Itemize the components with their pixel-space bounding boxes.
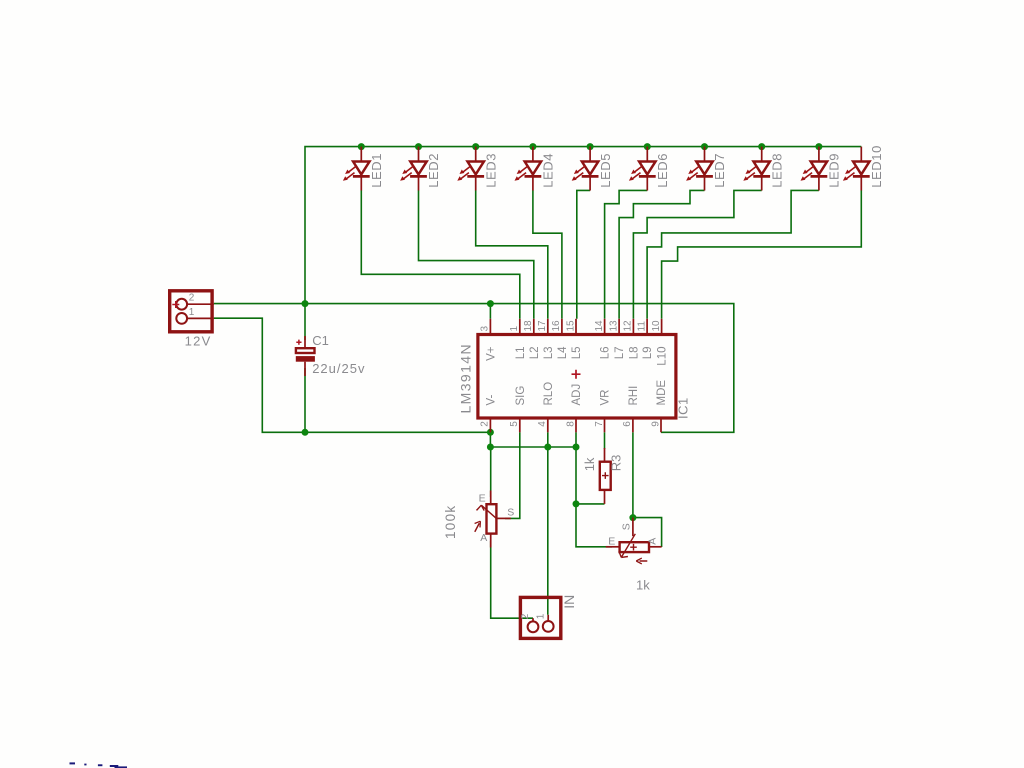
svg-text:6: 6 (622, 421, 633, 427)
svg-text:1: 1 (509, 326, 520, 332)
svg-text:LED5: LED5 (598, 153, 613, 188)
wire pot1 E link (490, 447, 492, 497)
svg-text:LED7: LED7 (712, 153, 727, 188)
svg-text:L3: L3 (543, 347, 555, 360)
svg-text:R3: R3 (608, 455, 623, 472)
wire V- pin2 down (489, 432, 491, 447)
wire LED6 cathode to pin L6 (605, 190, 648, 318)
svg-text:L6: L6 (600, 347, 612, 360)
LED LED9 (801, 147, 842, 191)
svg-text:17: 17 (537, 320, 548, 332)
junction RHI pot2 S node (629, 514, 636, 521)
pin name L7 (614, 347, 626, 360)
junction top rail LED1 (358, 143, 365, 150)
trimmer 100k pin label S (507, 507, 514, 519)
trimmer 1k pin label A (646, 538, 658, 545)
svg-text:15: 15 (565, 320, 576, 332)
junction V+ rail pin3 (487, 300, 494, 307)
svg-text:RLO: RLO (543, 382, 555, 406)
wire 12V pin1 to ground rail (214, 318, 491, 432)
wire R3 bottom link (576, 503, 605, 505)
svg-text:L1: L1 (515, 347, 527, 360)
wire LED2 cathode to pin L2 (419, 190, 534, 318)
trimmer 1k pin label E (608, 535, 615, 547)
pin name L3 (543, 347, 555, 360)
connector IN label (561, 595, 577, 609)
wire LED3 cathode to pin L3 (476, 190, 548, 318)
pin number 9 (650, 421, 661, 427)
LED LED10 (843, 145, 884, 190)
junction top rail LED9 (815, 143, 822, 150)
svg-text:8: 8 (565, 421, 576, 427)
svg-text:12: 12 (623, 320, 634, 332)
pin name L2 (529, 347, 541, 360)
svg-text:7: 7 (594, 421, 605, 427)
pin number 15 (565, 320, 576, 332)
svg-text:1: 1 (189, 307, 195, 318)
wire IC pin3 V+ stub net (489, 304, 491, 319)
svg-text:IN: IN (561, 595, 577, 609)
LED LED6 (629, 147, 670, 191)
junction top rail LED8 (758, 143, 765, 150)
IC U1 name LM3914N (458, 343, 474, 414)
pin number 13 (608, 320, 619, 332)
pin name L6 (600, 347, 612, 360)
svg-text:1: 1 (535, 613, 546, 619)
svg-text:16: 16 (551, 320, 562, 332)
pin name L1 (515, 347, 527, 360)
svg-text:L2: L2 (529, 347, 541, 360)
resistor R3 body (600, 462, 611, 490)
wire LED9 cathode to pin L9 (647, 190, 819, 318)
pin name RHI (628, 386, 640, 406)
svg-text:LED9: LED9 (827, 153, 842, 188)
wire LED7 cathode to pin L7 (619, 190, 704, 318)
svg-text:1k: 1k (582, 457, 597, 471)
svg-text:L5: L5 (571, 347, 583, 360)
junction ground pin2 (487, 429, 494, 436)
svg-text:LED4: LED4 (541, 153, 556, 188)
wire LED5 cathode to pin L5 (577, 190, 590, 318)
pin number 10 (651, 320, 662, 332)
svg-text:E: E (608, 535, 615, 547)
svg-text:22u/25v: 22u/25v (312, 361, 365, 376)
LED LED3 (457, 147, 498, 191)
svg-text:MDE: MDE (656, 380, 668, 406)
pin number 14 (594, 320, 605, 332)
junction top rail LED6 (644, 143, 651, 150)
junction top rail LED3 (472, 143, 479, 150)
junction rail447 ADJ (573, 444, 580, 451)
svg-text:L9: L9 (642, 347, 654, 360)
LED LED7 (686, 147, 727, 191)
pin number 17 (537, 320, 548, 332)
svg-text:E: E (479, 492, 486, 504)
svg-text:LED10: LED10 (869, 145, 884, 188)
svg-text:3: 3 (480, 326, 491, 332)
resistor R3 value 1k (582, 457, 597, 471)
capacitor C1 bottom plate (296, 356, 315, 362)
wire pot2 S-A loop (633, 518, 662, 547)
svg-text:L8: L8 (629, 347, 641, 360)
IC U1 refdes IC1 (676, 397, 691, 419)
junction rail447 left (487, 444, 494, 451)
svg-text:V+: V+ (486, 346, 498, 361)
connector IN pin number 1 (535, 613, 546, 619)
LED LED8 (743, 147, 784, 191)
svg-text:LED2: LED2 (426, 153, 441, 188)
pin name L4 (557, 346, 569, 359)
trimmer 1k pin label S (621, 523, 633, 530)
svg-text:14: 14 (594, 320, 605, 332)
trimmer 100k body (487, 504, 497, 533)
trimmer 1k body (620, 542, 649, 552)
wire SIG pin5 to pot1 wiper (505, 432, 520, 518)
junction top rail LED7 (701, 143, 708, 150)
pin number 18 (523, 320, 534, 332)
svg-text:2: 2 (189, 293, 195, 304)
pin name SIG (515, 386, 527, 406)
pin name V+ (486, 346, 498, 361)
pin number 5 (509, 421, 520, 427)
svg-text:LM3914N: LM3914N (458, 343, 474, 414)
wire LED10 cathode to pin L10 (662, 190, 862, 318)
resistor R3 refdes (608, 455, 623, 472)
svg-text:RHI: RHI (628, 386, 640, 406)
pin number 12 (623, 320, 634, 332)
pin name L8 (629, 347, 641, 360)
pin number 11 (636, 321, 647, 332)
LED LED1 (343, 147, 384, 191)
svg-text:2: 2 (480, 421, 491, 427)
wire pot1 A to IN pin2 (491, 541, 533, 618)
svg-text:5: 5 (509, 421, 520, 427)
pin name VR (600, 390, 612, 406)
svg-text:S: S (621, 523, 633, 530)
capacitor C1 refdes (312, 333, 329, 348)
svg-text:LED1: LED1 (369, 153, 384, 188)
pin name L10 (657, 347, 669, 366)
trimmer 100k pin A bottom (490, 534, 492, 548)
capacitor C1 value 22u/25v (312, 361, 365, 376)
svg-text:SIG: SIG (515, 386, 527, 406)
pin number 6 (622, 421, 633, 427)
connector 12V label (185, 333, 212, 348)
trimmer 100k pin E top (490, 491, 492, 505)
wire RLO pin4 to IN pin1 (547, 432, 549, 615)
trimmer 100k wiper arrow (477, 505, 497, 519)
svg-text:C1: C1 (312, 333, 329, 348)
svg-text:IC1: IC1 (676, 397, 691, 419)
junction top rail LED5 (587, 143, 594, 150)
wire C1 bottom link (304, 368, 306, 432)
resistor R3 pin bottom (604, 490, 606, 504)
trimmer 100k pin S wiper (496, 517, 510, 519)
stray blue marks bottom left (70, 762, 128, 768)
pin number 16 (551, 320, 562, 332)
trimmer 1k origin cross (630, 544, 637, 551)
IC U1 pin stubs top (490, 319, 661, 333)
svg-text:4: 4 (537, 421, 548, 427)
svg-text:10: 10 (651, 320, 662, 332)
svg-text:LED6: LED6 (655, 153, 670, 188)
capacitor C1 plus mark (296, 340, 301, 345)
svg-text:L10: L10 (657, 347, 669, 366)
pin name RLO (543, 382, 555, 406)
pin name ADJ (571, 384, 583, 406)
trimmer 1k pin A right (649, 546, 662, 548)
connector 12V plus mark (172, 301, 179, 308)
pin name L9 (642, 347, 654, 360)
pin number 8 (565, 421, 576, 427)
wire top anode rail (305, 147, 861, 304)
wire C1 top link (304, 304, 306, 340)
svg-text:A: A (480, 532, 487, 544)
pin number 7 (594, 421, 605, 427)
connector 12V pin number 2 (189, 293, 195, 304)
LED LED4 (515, 147, 556, 191)
trimmer 1k pin S wiper (632, 518, 634, 537)
junction V+ rail left (302, 300, 309, 307)
wire LED1 cathode to pin L1 (361, 190, 520, 318)
svg-text:11: 11 (636, 321, 647, 332)
svg-text:100k: 100k (443, 505, 458, 539)
IC U1 pin stubs bottom (490, 420, 661, 433)
LED LED5 (572, 147, 613, 191)
capacitor C1 pin top (304, 336, 306, 347)
IC U1 body LM3914 (478, 335, 676, 419)
svg-text:13: 13 (608, 320, 619, 332)
svg-text:S: S (507, 507, 514, 519)
svg-text:VR: VR (600, 390, 612, 406)
junction top rail LED2 (415, 143, 422, 150)
junction top rail LED4 (529, 143, 536, 150)
connector IN body (520, 597, 560, 638)
capacitor C1 pin bottom (304, 362, 306, 376)
pin name ADJ plus mark (572, 370, 581, 379)
trimmer 1k pin E left (606, 546, 620, 548)
svg-text:LED3: LED3 (483, 153, 498, 188)
svg-text:V-: V- (486, 394, 498, 405)
svg-text:18: 18 (523, 320, 534, 332)
wire VR pin7 to R3 (604, 432, 606, 449)
svg-text:12V: 12V (185, 333, 212, 348)
junction ground C1 (302, 429, 309, 436)
wire V+ rail to MODE loop (214, 304, 734, 433)
pin number 4 (537, 421, 548, 427)
wire LED8 cathode to pin L8 (633, 190, 761, 318)
resistor R3 pin top (604, 448, 606, 462)
wire LED4 cathode to pin L4 (533, 190, 562, 318)
trimmer 100k pin label E (479, 492, 486, 504)
wire RHI pin6 down (632, 432, 634, 517)
trimmer 100k pin label A (480, 532, 487, 544)
svg-text:ADJ: ADJ (571, 384, 583, 406)
connector 12V pin number 1 (189, 307, 195, 318)
connector 12V body (170, 291, 214, 332)
pin name L5 (571, 347, 583, 360)
svg-text:9: 9 (650, 421, 661, 427)
svg-text:A: A (646, 538, 658, 545)
junction rail447 RLO (544, 444, 551, 451)
svg-text:L4: L4 (557, 346, 569, 359)
trimmer 100k value (443, 505, 458, 539)
capacitor C1 top plate (296, 348, 315, 353)
junction ADJ R3 node (573, 500, 580, 507)
svg-text:1k: 1k (636, 578, 650, 593)
pin name MDE (656, 380, 668, 406)
trimmer 100k adjust arrow (475, 521, 481, 532)
trimmer 1k value (636, 578, 650, 593)
pin number 2 (480, 421, 491, 427)
LED LED2 (400, 147, 441, 191)
connector IN pin number 2 (520, 613, 531, 619)
pin number 1 (509, 326, 520, 332)
svg-text:LED8: LED8 (769, 153, 784, 188)
pin name V- (486, 394, 498, 405)
svg-text:L7: L7 (614, 347, 626, 360)
resistor R3 origin cross (602, 472, 609, 479)
trimmer 1k adjust arrow (636, 558, 647, 564)
svg-text:2: 2 (520, 613, 531, 619)
wire ADJ pin8 down to pot2 E (576, 432, 612, 547)
trimmer 1k wiper arrow (619, 534, 635, 558)
wire bottom rail y447 (490, 446, 576, 448)
pin number 3 (480, 326, 491, 332)
